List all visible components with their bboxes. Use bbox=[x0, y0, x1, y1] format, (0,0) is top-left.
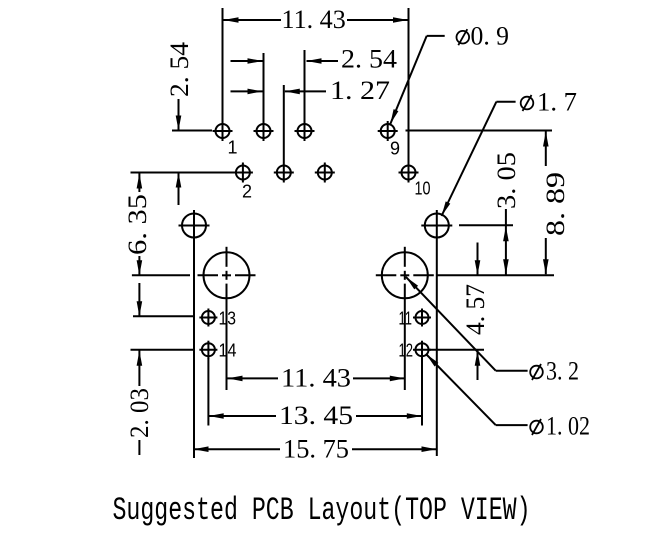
dim line 1.27 bbox=[231, 89, 327, 95]
svg-text:2. 03: 2. 03 bbox=[125, 388, 154, 438]
mounting hole left dia3.2 bbox=[198, 247, 256, 298]
title text bbox=[113, 492, 531, 529]
hole pin 6 bbox=[315, 163, 335, 183]
label pin 2 bbox=[242, 182, 252, 202]
svg-text:11. 43: 11. 43 bbox=[281, 364, 351, 393]
dim line 2.54 vert bbox=[176, 99, 182, 205]
extension line holes11-12 down bbox=[421, 358, 423, 426]
dim text 3.05 bbox=[492, 152, 521, 209]
extension line pin10 top bbox=[408, 8, 410, 182]
label dia1.02 bbox=[530, 412, 590, 441]
shield hole right dia1.7 bbox=[421, 214, 452, 238]
svg-text:Suggested PCB Layout(TOP VIEW): Suggested PCB Layout(TOP VIEW) bbox=[113, 492, 531, 529]
svg-text:13. 45: 13. 45 bbox=[279, 401, 353, 430]
dim text 11.43 bottom bbox=[281, 364, 351, 393]
dim text 4.57 bbox=[461, 284, 490, 335]
extension line pin14 row left bbox=[131, 349, 196, 351]
hole pin 4 bbox=[274, 163, 294, 183]
extension line circle row left bbox=[132, 274, 190, 276]
svg-text:10: 10 bbox=[415, 179, 431, 199]
svg-text:3. 2: 3. 2 bbox=[546, 357, 579, 386]
hole pin 5 bbox=[295, 121, 315, 141]
leader dia3.2 bbox=[406, 277, 528, 371]
hole pin 3 bbox=[254, 121, 274, 141]
dim text 6.35 bbox=[123, 194, 152, 255]
svg-text:8. 89: 8. 89 bbox=[541, 172, 570, 236]
label pin 1 bbox=[228, 138, 238, 158]
dim text 1.27 bbox=[330, 76, 390, 105]
svg-text:1. 7: 1. 7 bbox=[537, 88, 577, 117]
dim text 2.54 horiz bbox=[341, 45, 397, 74]
svg-text:1. 27: 1. 27 bbox=[330, 76, 390, 105]
extension line row1 left bbox=[172, 130, 212, 132]
hole pin 9 bbox=[378, 121, 398, 141]
svg-text:11. 43: 11. 43 bbox=[282, 5, 346, 34]
dim text 11.43 top bbox=[282, 5, 346, 34]
extension line pin12 row right bbox=[429, 349, 485, 351]
label pin 12 bbox=[399, 341, 414, 361]
dim text 15.75 bbox=[283, 435, 349, 464]
dim line 6.35 bbox=[137, 173, 143, 276]
hole pin 10 bbox=[399, 163, 419, 183]
hole pin 14 bbox=[199, 341, 217, 359]
dim text 13.45 bbox=[279, 401, 353, 430]
extension line circleR down bbox=[404, 284, 406, 390]
extension line shield-right row bbox=[459, 224, 513, 226]
label dia3.2 bbox=[530, 357, 579, 386]
svg-text:4. 57: 4. 57 bbox=[461, 284, 490, 335]
dim line 11.43 bottom bbox=[228, 376, 405, 382]
hole pin 12 bbox=[413, 341, 431, 359]
hole pin 11 bbox=[413, 309, 431, 327]
label dia1.7 bbox=[521, 88, 577, 117]
extension line pin1 top bbox=[222, 8, 224, 121]
svg-text:1. 02: 1. 02 bbox=[546, 412, 590, 441]
leader dia1.7 bbox=[442, 102, 516, 216]
shield hole left dia1.7 bbox=[179, 214, 210, 238]
label pin 11 bbox=[399, 309, 413, 329]
svg-text:2. 54: 2. 54 bbox=[341, 45, 397, 74]
extension line pin4 bbox=[283, 85, 285, 163]
label pin 14 bbox=[219, 341, 237, 361]
dim line 4.57 bbox=[475, 243, 481, 381]
dim line 8.89 bbox=[543, 131, 549, 275]
extension line row2 left bbox=[131, 172, 234, 174]
leader dia1.02 bbox=[426, 354, 528, 425]
svg-text:0. 9: 0. 9 bbox=[471, 21, 510, 50]
svg-text:3. 05: 3. 05 bbox=[492, 152, 521, 209]
dim line 13.45 bbox=[209, 413, 422, 419]
extension line pin3 bbox=[263, 53, 265, 121]
svg-text:1: 1 bbox=[228, 138, 238, 158]
extension line holes13-14 down bbox=[207, 358, 209, 426]
dim line 2.03 bbox=[137, 283, 143, 455]
label pin 13 bbox=[219, 309, 237, 329]
label pin 9 bbox=[390, 139, 400, 159]
svg-text:2. 54: 2. 54 bbox=[165, 42, 194, 97]
dim line 15.75 bbox=[194, 446, 437, 452]
hole pin 13 bbox=[199, 309, 217, 327]
extension line circleL down bbox=[226, 284, 228, 390]
dim text 2.03 bbox=[125, 388, 154, 438]
dim line 11.43 top bbox=[224, 17, 409, 23]
dim text 8.89 bbox=[541, 172, 570, 236]
leader dia0.9 bbox=[390, 36, 444, 124]
mounting hole right dia3.2 bbox=[376, 247, 434, 298]
extension line row1 right bbox=[406, 130, 553, 132]
extension line circle row right bbox=[438, 274, 555, 276]
hole pin 1 bbox=[213, 121, 233, 141]
svg-text:6. 35: 6. 35 bbox=[123, 194, 152, 255]
extension line pin5 bbox=[304, 50, 306, 121]
label pin 10 bbox=[415, 179, 431, 199]
dim line 2.54 horiz bbox=[231, 58, 339, 64]
extension line shield-right vertical bbox=[436, 210, 438, 456]
svg-text:15. 75: 15. 75 bbox=[283, 435, 349, 464]
hole pin 2 bbox=[233, 163, 253, 183]
extension line pin13 row left bbox=[133, 315, 195, 317]
svg-text:9: 9 bbox=[390, 139, 400, 159]
dim text 2.54 vert bbox=[165, 42, 194, 97]
extension line shield-left vertical bbox=[193, 210, 195, 458]
svg-text:2: 2 bbox=[242, 182, 252, 202]
dim line 3.05 bbox=[503, 209, 509, 275]
label dia0.9 bbox=[457, 21, 510, 50]
